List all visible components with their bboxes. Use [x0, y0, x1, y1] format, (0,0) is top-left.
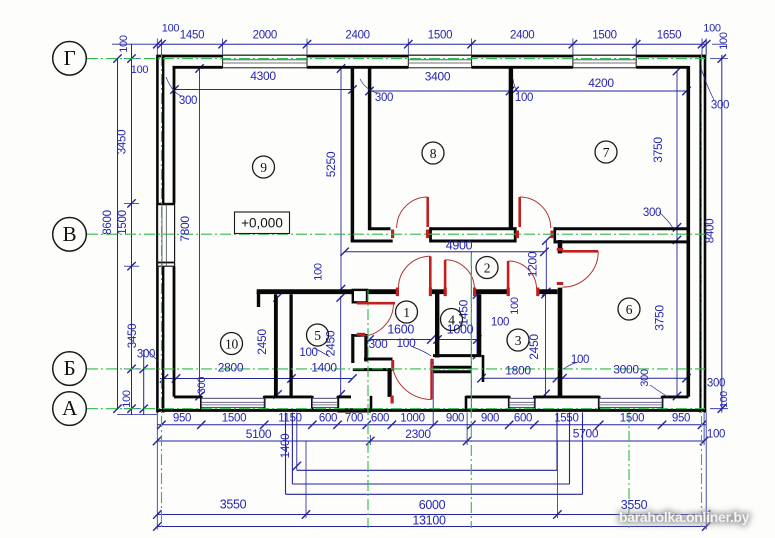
- svg-text:300: 300: [707, 378, 725, 390]
- svg-text:300: 300: [375, 92, 393, 104]
- svg-text:100: 100: [515, 92, 533, 104]
- svg-text:4900: 4900: [446, 238, 473, 252]
- svg-text:100: 100: [313, 263, 325, 281]
- svg-text:300: 300: [196, 377, 208, 395]
- svg-text:900: 900: [481, 413, 499, 425]
- svg-text:1500: 1500: [222, 413, 246, 425]
- svg-text:В: В: [63, 222, 77, 246]
- svg-text:3750: 3750: [653, 305, 667, 331]
- svg-text:100: 100: [491, 317, 509, 329]
- svg-text:100: 100: [299, 347, 317, 359]
- svg-text:1000: 1000: [400, 413, 424, 425]
- svg-text:600: 600: [514, 413, 532, 425]
- svg-text:10: 10: [225, 336, 238, 351]
- svg-text:7: 7: [603, 145, 610, 160]
- svg-text:1200: 1200: [526, 251, 540, 277]
- svg-text:1800: 1800: [505, 364, 531, 378]
- svg-text:100: 100: [707, 429, 725, 441]
- svg-text:5700: 5700: [573, 427, 599, 441]
- svg-text:6: 6: [626, 302, 633, 317]
- svg-text:100: 100: [571, 354, 589, 366]
- svg-text:1600: 1600: [387, 322, 414, 336]
- svg-text:1150: 1150: [278, 413, 302, 425]
- svg-text:1500: 1500: [428, 30, 452, 42]
- svg-text:Б: Б: [64, 356, 76, 380]
- svg-text:1450: 1450: [180, 30, 204, 42]
- svg-text:А: А: [62, 396, 78, 420]
- svg-text:100: 100: [121, 390, 133, 408]
- svg-text:2400: 2400: [345, 30, 369, 42]
- svg-text:8400: 8400: [705, 219, 717, 243]
- svg-text:4300: 4300: [250, 69, 276, 83]
- svg-text:2300: 2300: [405, 427, 431, 441]
- svg-text:8: 8: [430, 146, 437, 161]
- svg-text:100: 100: [718, 391, 730, 408]
- svg-text:1400: 1400: [311, 360, 337, 374]
- svg-text:4: 4: [448, 312, 455, 327]
- svg-text:1650: 1650: [657, 30, 681, 42]
- svg-text:5: 5: [314, 328, 321, 343]
- svg-text:1500: 1500: [592, 30, 616, 42]
- svg-text:3400: 3400: [425, 70, 451, 84]
- svg-text:2450: 2450: [255, 329, 269, 355]
- svg-text:5250: 5250: [324, 151, 338, 177]
- svg-text:7800: 7800: [178, 216, 192, 242]
- svg-text:3550: 3550: [220, 498, 247, 512]
- svg-text:2: 2: [484, 260, 490, 275]
- svg-text:1450: 1450: [457, 299, 471, 325]
- svg-text:300: 300: [711, 100, 729, 112]
- svg-text:100: 100: [118, 35, 130, 53]
- svg-text:1: 1: [403, 305, 409, 320]
- svg-text:2400: 2400: [510, 30, 534, 42]
- svg-text:1500: 1500: [117, 210, 129, 234]
- svg-text:100: 100: [396, 336, 416, 350]
- svg-text:300: 300: [368, 337, 388, 351]
- svg-text:13100: 13100: [412, 514, 446, 528]
- svg-text:4200: 4200: [588, 76, 614, 90]
- svg-text:300: 300: [639, 369, 651, 387]
- svg-text:2800: 2800: [218, 360, 244, 374]
- svg-text:3: 3: [515, 333, 522, 348]
- svg-text:100: 100: [162, 23, 180, 35]
- svg-text:1550: 1550: [554, 413, 578, 425]
- svg-text:300: 300: [643, 207, 661, 219]
- svg-text:9: 9: [260, 160, 267, 175]
- svg-text:3450: 3450: [127, 324, 139, 348]
- svg-text:600: 600: [319, 413, 337, 425]
- svg-text:8600: 8600: [102, 210, 114, 234]
- svg-text:5100: 5100: [246, 427, 272, 441]
- svg-text:950: 950: [173, 413, 191, 425]
- svg-text:100: 100: [131, 64, 149, 76]
- svg-text:100: 100: [509, 297, 521, 315]
- svg-text:300: 300: [179, 95, 197, 107]
- svg-text:100: 100: [718, 32, 730, 50]
- svg-text:3450: 3450: [117, 130, 129, 154]
- svg-text:+0,000: +0,000: [241, 216, 283, 231]
- svg-text:300: 300: [137, 349, 155, 361]
- svg-text:3750: 3750: [651, 137, 665, 163]
- svg-text:6000: 6000: [419, 498, 446, 512]
- svg-text:Г: Г: [64, 46, 76, 70]
- svg-text:600: 600: [371, 413, 389, 425]
- svg-text:900: 900: [446, 413, 464, 425]
- svg-text:700: 700: [345, 413, 363, 425]
- svg-text:2000: 2000: [253, 30, 277, 42]
- svg-text:1400: 1400: [280, 434, 292, 458]
- svg-text:3000: 3000: [613, 362, 639, 376]
- svg-text:950: 950: [672, 413, 690, 425]
- svg-text:1500: 1500: [620, 413, 644, 425]
- svg-text:baraholka.onliner.by: baraholka.onliner.by: [619, 509, 750, 525]
